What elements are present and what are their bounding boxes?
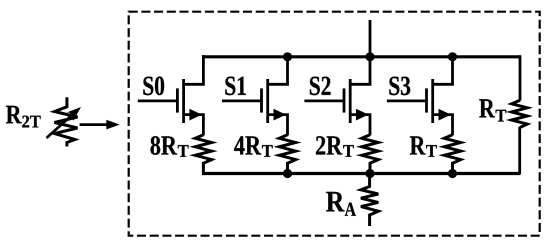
bottom rail wire [202,172,520,175]
transistor S0 [138,55,204,135]
transistor S0 source arrow [189,109,202,121]
label 8R_T [151,136,178,155]
top rail wire [202,55,520,58]
transistor S2 source arrow [356,109,369,121]
channel bar S3 [431,79,434,123]
label S2 [310,77,331,96]
resistor 2RT [362,135,378,174]
variable resistor R2T symbol [55,97,78,146]
gate bar S1 [260,88,263,112]
gate bar S3 [425,88,428,112]
gate wire S1 [222,100,262,103]
node dot bottom x=370 [365,169,374,178]
label R_T [410,136,426,154]
variable resistor diagonal arrow [47,116,72,139]
transistor S3 source arrow [439,109,452,121]
source wire S3 down [433,115,453,136]
dashed enclosure border [129,12,540,236]
transistor S2 [304,55,370,135]
node dot bottom x=452.5 [448,169,457,178]
channel bar S2 [349,79,352,123]
drain wire S0 to top rail [184,55,204,84]
right branch wire bottom [518,127,521,175]
source wire S2 down [350,115,370,136]
resistor RT right [512,100,528,127]
resistor 8RT [195,135,211,174]
label S1 [225,77,245,96]
source wire S0 down [184,115,204,136]
label 2R_T [316,136,342,154]
node dot top x=370 [365,52,374,61]
resistor 4RT [279,135,295,174]
drain wire S3 to top rail [433,55,453,84]
transistor S3 [387,55,453,135]
transistor S1 [222,55,288,135]
gate wire S0 [138,100,178,103]
source wire S1 down [268,115,288,136]
pointer arrow into box [80,123,108,126]
label 4R_T [234,136,261,154]
drain wire S1 to top rail [268,55,288,84]
transistor S1 source arrow [274,109,287,121]
label S0 [143,77,164,96]
label R2T [6,106,22,124]
node dot top x=452.5 [448,52,457,61]
gate bar S2 [343,88,346,112]
label S3 [389,77,410,96]
node dot top x=287.5 [283,52,292,61]
node dot bottom x=287.5 [283,169,292,178]
channel bar S0 [182,79,185,123]
right branch wire top [519,55,522,100]
drain wire S2 to top rail [350,55,370,84]
label RA [326,192,344,212]
top input stub wire [369,20,372,57]
gate bar S0 [176,88,179,112]
channel bar S1 [266,79,269,123]
gate wire S3 [387,100,427,103]
resistor RA [361,174,378,226]
resistor RT column [444,135,460,174]
label RT right [479,99,495,117]
gate wire S2 [304,100,344,103]
